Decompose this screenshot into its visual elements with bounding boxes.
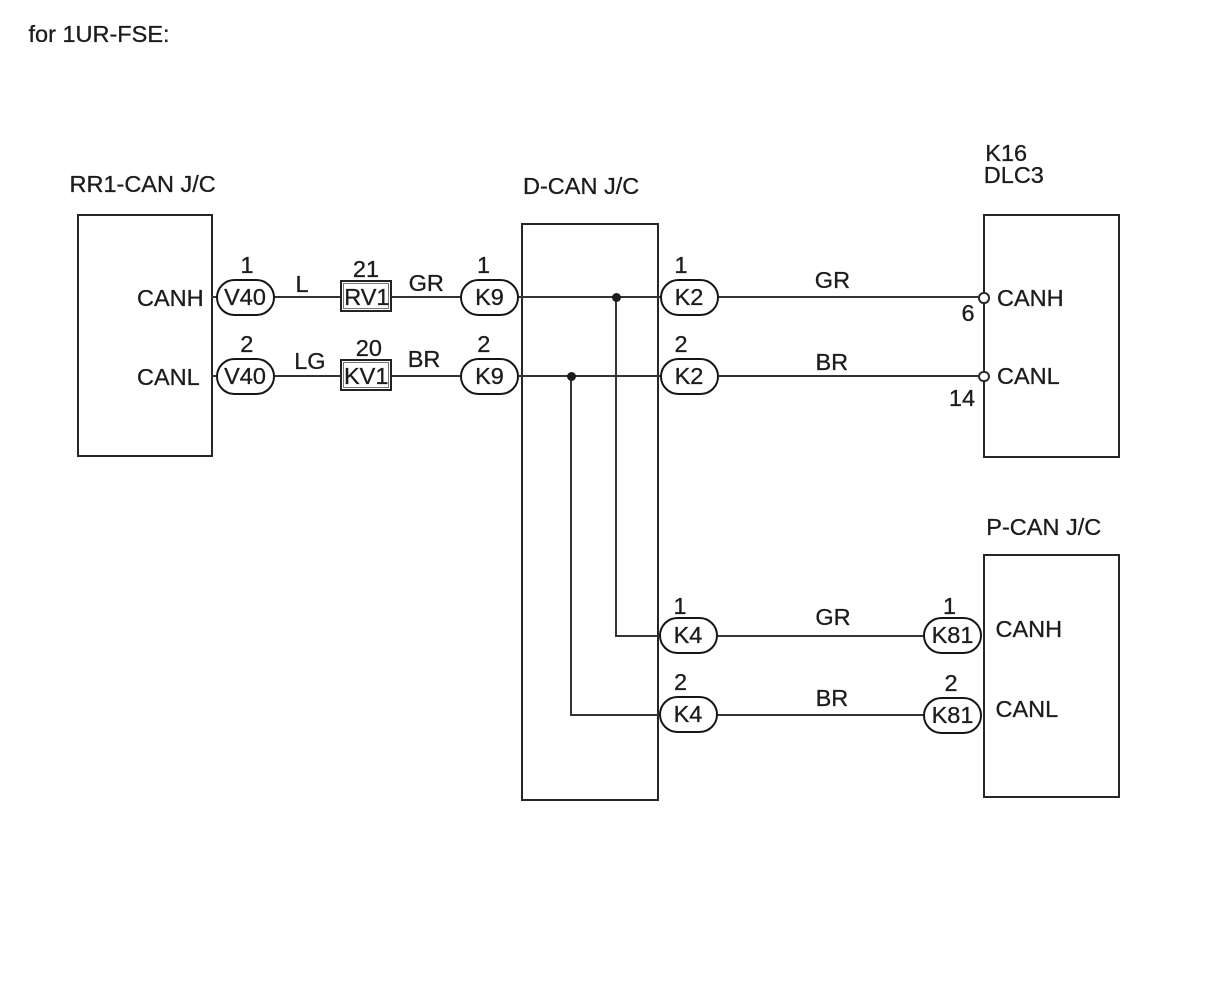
- pin number 2 of K4: [674, 671, 687, 695]
- wire color GR (K4 to K81): [815, 606, 850, 630]
- wire color GR (RV1 to K9): [409, 272, 444, 296]
- junction node on CANL line: [567, 372, 576, 381]
- net CANL at DLC3: [997, 365, 1060, 389]
- net CANH at P-CAN: [996, 618, 1063, 642]
- wire color GR (K2 to DLC3): [815, 269, 850, 293]
- wire BR: K4 pin 2 to P-CAN K81 pin 2: [570, 714, 924, 716]
- label P-CAN J/C: [986, 516, 1101, 540]
- terminal pin 6 of DLC3 (CANH): [978, 292, 990, 304]
- label DLC3: [984, 164, 1044, 188]
- net CANL at P-CAN: [996, 698, 1059, 722]
- connector K4 pin 1: [659, 617, 718, 654]
- pin number 21 of RV1: [353, 258, 379, 282]
- connector K2 pin 1: [660, 279, 719, 316]
- net CANH at DLC3: [997, 287, 1064, 311]
- wire color LG: [294, 350, 325, 374]
- label RR1-CAN J/C: [70, 173, 216, 197]
- connector K81 pin 1: [923, 617, 982, 654]
- wire color BR (KV1 to K9): [408, 348, 441, 372]
- pin number 2 of K81: [945, 672, 958, 696]
- title text: [29, 23, 170, 47]
- pin number 1 of K2: [675, 254, 688, 278]
- pin number 14 of DLC3: [949, 387, 975, 411]
- pin number 2 of K2: [675, 333, 688, 357]
- pin number 2 of V40: [240, 333, 253, 357]
- junction node on CANH line: [612, 293, 621, 302]
- junction terminal RV1 pin 21: [340, 280, 392, 312]
- connector K4 pin 2: [659, 696, 718, 733]
- pin number 2 of K9: [477, 333, 490, 357]
- wire CANL row: RR1 V40 to KV1 to K9 through D-CAN to K2 to DLC3 pin 14: [211, 375, 985, 377]
- wire GR: K4 pin 1 to P-CAN K81 pin 1: [615, 635, 924, 637]
- net CANH at RR1: [137, 287, 204, 311]
- label K16: [985, 142, 1027, 166]
- connector K81 pin 2: [923, 697, 982, 734]
- junction connector P-CAN J/C box: [983, 554, 1120, 798]
- pin number 1 of K81: [943, 595, 956, 619]
- net CANL at RR1: [137, 366, 200, 390]
- wire vertical branch from CANH junction down to K4 pin 1: [615, 296, 617, 636]
- wire color L: [296, 273, 309, 297]
- label D-CAN J/C: [523, 175, 639, 199]
- pin number 20 of KV1: [356, 337, 382, 361]
- connector K2 pin 2: [660, 358, 719, 395]
- connector V40 pin 1 (CANH): [216, 279, 275, 316]
- connector K9 pin 2: [460, 358, 519, 395]
- wire color BR (K2 to DLC3): [816, 351, 849, 375]
- pin number 1 of K9: [477, 254, 490, 278]
- connector K16 DLC3 box: [983, 214, 1120, 458]
- terminal pin 14 of DLC3 (CANL): [978, 371, 990, 383]
- wire color BR (K4 to K81): [816, 687, 849, 711]
- wire vertical branch from CANL junction down to K4 pin 2: [570, 375, 572, 716]
- pin number 1 of V40: [241, 254, 254, 278]
- connector V40 pin 2 (CANL): [216, 358, 275, 395]
- junction terminal KV1 pin 20: [340, 359, 392, 391]
- junction connector RR1-CAN J/C box: [77, 214, 213, 457]
- wire CANH row: RR1 V40 to RV1 to K9 through D-CAN to K2 to DLC3 pin 6: [211, 296, 985, 298]
- junction connector D-CAN J/C box: [521, 223, 659, 802]
- pin number 6 of DLC3: [962, 302, 975, 326]
- connector K9 pin 1: [460, 279, 519, 316]
- pin number 1 of K4: [674, 595, 687, 619]
